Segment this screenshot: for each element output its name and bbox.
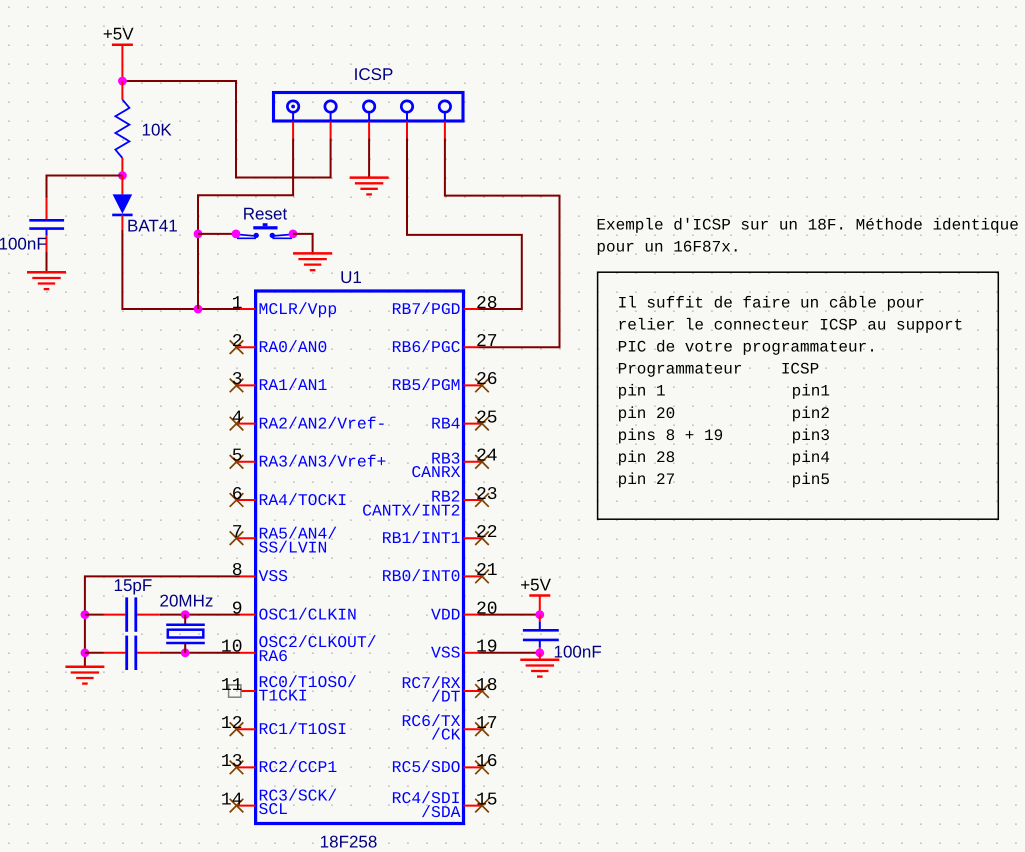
- pin 20 lead: [464, 614, 479, 616]
- svg-text:MCLR/Vpp: MCLR/Vpp: [259, 300, 338, 319]
- svg-text:25: 25: [476, 408, 498, 428]
- pushbutton Reset: [237, 223, 292, 238]
- lead ICSP pin3: [368, 122, 370, 139]
- svg-text:Exemple d'ICSP sur un 18F. Mét: Exemple d'ICSP sur un 18F. Méthode ident…: [596, 217, 1018, 235]
- diode BAT41: [112, 176, 132, 230]
- svg-text:RA1/AN1: RA1/AN1: [259, 376, 328, 395]
- capacitor C 100nF (left): [29, 198, 64, 253]
- pin 8 lead: [240, 575, 256, 577]
- wire OSC1 row: [85, 614, 104, 616]
- pin 3 lead: [237, 384, 256, 386]
- svg-text:14: 14: [221, 790, 243, 810]
- pin 18 lead: [464, 690, 483, 692]
- svg-text:27: 27: [476, 332, 498, 352]
- wire +5V stem to junction: [121, 45, 123, 81]
- ground (Reset): [293, 253, 332, 270]
- svg-text:SCL: SCL: [259, 800, 289, 819]
- wire ICSP pin5 to RB6/PGC (pin 27): [445, 139, 560, 348]
- note box: [598, 272, 999, 519]
- pin 24 lead: [464, 461, 483, 463]
- svg-text:pin2: pin2: [792, 405, 830, 423]
- pin 7 no-connect X: [230, 531, 244, 545]
- pin 14 no-connect X: [230, 799, 244, 813]
- svg-text:U1: U1: [340, 268, 362, 287]
- pin 5 lead: [237, 461, 256, 463]
- svg-text:RB5/PGM: RB5/PGM: [392, 376, 461, 395]
- pin 4 no-connect X: [230, 417, 244, 431]
- wire 100nF to ground: [46, 252, 48, 272]
- wire junction to left 100nF: [47, 176, 123, 198]
- crystal X1 20MHz: [166, 615, 205, 653]
- wire VSS pin19 to junction: [479, 652, 540, 654]
- svg-text:15: 15: [476, 790, 498, 810]
- pin 19 lead: [464, 652, 479, 654]
- node junction Reset left: [194, 230, 203, 239]
- svg-text:CANTX/INT2: CANTX/INT2: [362, 501, 460, 520]
- svg-text:11: 11: [221, 676, 243, 696]
- svg-text:pin3: pin3: [792, 427, 830, 445]
- svg-text:+5V: +5V: [520, 575, 551, 594]
- node junction at resistor top: [118, 77, 127, 86]
- svg-text:pin 27: pin 27: [618, 471, 676, 489]
- resistor 10K: [115, 81, 129, 176]
- pin 10 lead: [240, 652, 256, 654]
- svg-text:T1CKI: T1CKI: [259, 687, 308, 706]
- pin 17 no-connect X: [475, 722, 489, 736]
- lead ICSP pin4: [406, 122, 408, 139]
- pin 5 no-connect X: [230, 455, 244, 469]
- svg-text:RA2/AN2/Vref-: RA2/AN2/Vref-: [259, 414, 387, 433]
- pin 17 lead: [464, 728, 483, 730]
- svg-text:20: 20: [476, 599, 498, 619]
- svg-text:pin4: pin4: [792, 449, 830, 467]
- power +5V (VDD): [520, 575, 551, 595]
- svg-text:VSS: VSS: [431, 644, 461, 663]
- svg-text:2: 2: [232, 332, 243, 352]
- pin 7 lead: [237, 537, 256, 539]
- wire +5V bar to VDD junction: [539, 596, 541, 615]
- node junction VSS/100nF: [535, 648, 544, 657]
- svg-text:9: 9: [232, 599, 243, 619]
- wire VSS pin8 to ground rail: [85, 576, 240, 666]
- pin 2 no-connect X: [230, 340, 244, 354]
- pin 26 no-connect X: [475, 379, 489, 393]
- svg-text:SS/LVIN: SS/LVIN: [259, 538, 328, 557]
- wire ICSP pin1 to Reset/MCLR net: [198, 139, 293, 310]
- lead ICSP pin1: [292, 122, 294, 139]
- svg-text:10: 10: [221, 638, 243, 658]
- svg-text:12: 12: [221, 714, 243, 734]
- svg-text:RC2/CCP1: RC2/CCP1: [259, 758, 338, 777]
- svg-text:20MHz: 20MHz: [160, 592, 214, 611]
- svg-text:CANRX: CANRX: [411, 463, 460, 482]
- svg-text:RA0/AN0: RA0/AN0: [259, 338, 328, 357]
- pin 21 no-connect X: [475, 570, 489, 584]
- pin 4 lead: [237, 423, 256, 425]
- svg-text:24: 24: [476, 447, 498, 467]
- pin 26 lead: [464, 384, 483, 386]
- pin 9 lead: [240, 614, 256, 616]
- svg-text:18F258: 18F258: [320, 833, 378, 852]
- svg-text:RC1/T1OSI: RC1/T1OSI: [259, 720, 348, 739]
- svg-text:pin 20: pin 20: [618, 405, 676, 423]
- svg-text:VSS: VSS: [259, 567, 289, 586]
- svg-text:/SDA: /SDA: [421, 803, 461, 822]
- wire VDD pin20 to +5V: [479, 614, 540, 616]
- pin 18 no-connect X: [475, 684, 489, 698]
- svg-text:7: 7: [232, 523, 243, 543]
- svg-text:100nF: 100nF: [554, 643, 602, 662]
- capacitor C 15pF (top): [104, 597, 160, 631]
- lead ICSP pin5: [444, 122, 446, 139]
- power +5V (top left): [103, 25, 134, 45]
- pin 2 lead: [237, 346, 256, 348]
- svg-text:Reset: Reset: [243, 205, 288, 224]
- ground (crystal caps): [65, 667, 104, 684]
- wire ICSP pin4 to RB7/PGD (pin 28): [407, 139, 522, 310]
- svg-text:6: 6: [232, 485, 243, 505]
- pin 25 lead: [464, 423, 483, 425]
- svg-text:pins 8 + 19: pins 8 + 19: [618, 427, 724, 445]
- svg-text:RA6: RA6: [259, 647, 289, 666]
- wire junction to ground: [539, 653, 541, 660]
- svg-text:1: 1: [232, 294, 243, 314]
- svg-text:relier le connecteur ICSP au s: relier le connecteur ICSP au support: [618, 317, 964, 335]
- pin 23 lead: [464, 499, 483, 501]
- svg-text:/DT: /DT: [431, 688, 461, 707]
- svg-text:pin 28: pin 28: [618, 449, 676, 467]
- svg-text:4: 4: [232, 408, 243, 428]
- pin 22 lead: [464, 537, 483, 539]
- wire OSC2 row: [85, 652, 104, 654]
- wire ICSP pin3 to ground: [368, 139, 370, 178]
- pin 6 lead: [237, 499, 256, 501]
- pin 25 no-connect X: [475, 417, 489, 431]
- svg-text:RB4: RB4: [431, 414, 461, 433]
- svg-text:23: 23: [476, 485, 498, 505]
- svg-text:5: 5: [232, 447, 243, 467]
- svg-text:17: 17: [476, 714, 498, 734]
- svg-text:100nF: 100nF: [0, 235, 47, 254]
- wire +5V junction to ICSP pin2: [122, 81, 330, 178]
- node junction cap2 left: [81, 648, 90, 657]
- svg-text:RA3/AN3/Vref+: RA3/AN3/Vref+: [259, 453, 387, 472]
- svg-text:18: 18: [476, 676, 498, 696]
- node junction resistor/diode/100nF: [118, 171, 127, 180]
- pin 3 no-connect X: [230, 379, 244, 393]
- capacitor C 15pF (bottom): [104, 636, 160, 670]
- pin 6 no-connect X: [230, 493, 244, 507]
- pin 16 lead: [464, 766, 483, 768]
- svg-text:PIC de votre programmateur.: PIC de votre programmateur.: [618, 339, 877, 357]
- svg-text:RB6/PGC: RB6/PGC: [392, 338, 461, 357]
- node junction crystal bottom: [181, 648, 190, 657]
- node junction VDD: [535, 610, 544, 619]
- svg-text:21: 21: [476, 561, 498, 581]
- wire diode to MCLR (pin 1): [122, 230, 240, 309]
- svg-text:15pF: 15pF: [114, 576, 153, 595]
- svg-text:Programmateur ICSP: Programmateur ICSP: [618, 361, 820, 379]
- pin 13 lead: [237, 766, 256, 768]
- svg-text:pin1: pin1: [792, 383, 830, 401]
- svg-text:8: 8: [232, 561, 243, 581]
- pin 1 lead: [240, 308, 256, 310]
- svg-text:pour un 16F87x.: pour un 16F87x.: [596, 239, 740, 257]
- svg-text:26: 26: [476, 370, 498, 390]
- IC U1 18F258 body: [256, 291, 464, 824]
- ground (left 100nF): [27, 272, 66, 289]
- pin 12 lead: [237, 728, 256, 730]
- svg-text:28: 28: [476, 294, 498, 314]
- node Reset right terminal: [289, 230, 298, 239]
- svg-text:OSC1/CLKIN: OSC1/CLKIN: [259, 605, 357, 624]
- ground (ICSP pin3): [350, 178, 389, 195]
- pin 27 lead: [464, 346, 479, 348]
- svg-text:22: 22: [476, 523, 498, 543]
- node junction at MCLR wire: [194, 305, 203, 314]
- node Reset left terminal: [232, 230, 241, 239]
- lead ICSP pin2: [330, 122, 332, 139]
- svg-text:pin5: pin5: [792, 471, 830, 489]
- pin 14 lead: [237, 805, 256, 807]
- pin 13 no-connect X: [230, 761, 244, 775]
- pin 24 no-connect X: [475, 455, 489, 469]
- wire junction to Reset button: [198, 233, 233, 235]
- svg-text:RB0/INT0: RB0/INT0: [382, 567, 461, 586]
- svg-text:10K: 10K: [142, 120, 173, 139]
- svg-text:RB7/PGD: RB7/PGD: [392, 300, 461, 319]
- svg-text:RB1/INT1: RB1/INT1: [382, 529, 461, 548]
- wire Reset to ground: [293, 234, 313, 253]
- svg-text:19: 19: [476, 638, 498, 658]
- pin 15 no-connect X: [475, 799, 489, 813]
- svg-text:3: 3: [232, 370, 243, 390]
- ground (VDD 100nF): [520, 660, 559, 677]
- pin 16 no-connect X: [475, 761, 489, 775]
- node junction crystal top: [181, 610, 190, 619]
- pin 11 no-connect square: [229, 685, 241, 697]
- pin 28 lead: [464, 308, 479, 310]
- pin 15 lead: [464, 805, 483, 807]
- svg-text:RA4/TOCKI: RA4/TOCKI: [259, 491, 348, 510]
- svg-text:16: 16: [476, 752, 498, 772]
- pin 21 lead: [464, 575, 483, 577]
- svg-text:BAT41: BAT41: [127, 217, 178, 236]
- pin 11 lead: [241, 690, 256, 692]
- svg-text:/CK: /CK: [431, 726, 461, 745]
- svg-text:RC5/SDO: RC5/SDO: [392, 758, 461, 777]
- pin 23 no-connect X: [475, 493, 489, 507]
- capacitor C 100nF (right): [523, 615, 559, 653]
- svg-text:Il suffit de faire un câble po: Il suffit de faire un câble pour: [618, 295, 925, 313]
- pin 22 no-connect X: [475, 531, 489, 545]
- pin 12 no-connect X: [230, 722, 244, 736]
- svg-text:ICSP: ICSP: [354, 65, 394, 84]
- svg-text:pin 1: pin 1: [618, 383, 666, 401]
- connector ICSP J1: [274, 93, 464, 122]
- svg-text:+5V: +5V: [103, 25, 134, 44]
- node junction cap1 left: [81, 610, 90, 619]
- svg-text:13: 13: [221, 752, 243, 772]
- svg-text:VDD: VDD: [431, 605, 461, 624]
